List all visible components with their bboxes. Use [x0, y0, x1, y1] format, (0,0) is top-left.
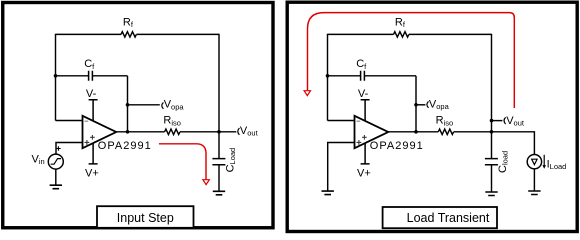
- capacitor C2 (CLoad): [212, 159, 225, 165]
- node junction dot Vout probe tap: [490, 119, 494, 123]
- panel frame (Input Step): [3, 3, 273, 228]
- ground (Vin): [50, 185, 62, 189]
- node junction dot Cf tap: [54, 74, 58, 78]
- node junction dot Vout: [217, 130, 221, 134]
- wire: Cf branch right: [364, 75, 416, 77]
- svg-text:Load Transient: Load Transient: [407, 211, 490, 225]
- op-amp U2 OPA2991: [355, 116, 389, 148]
- svg-text:V-: V-: [86, 88, 97, 100]
- capacitor C4 (CLoad): [485, 159, 498, 165]
- wire: op-amp output: [116, 131, 164, 133]
- wire: non-inverting input: [56, 143, 83, 155]
- svg-text:V+: V+: [357, 168, 371, 180]
- wire: CLoad to ground: [218, 165, 220, 192]
- wire: top feedback right segment: [409, 33, 492, 35]
- ground (ILoad): [528, 191, 540, 195]
- node junction dot output wire: [414, 130, 418, 134]
- op-amp minus input marker: [85, 120, 89, 122]
- ground (CLoad): [213, 191, 225, 195]
- wire: Riso to Vout node: [180, 131, 236, 133]
- wire: Vout node down to CLoad: [491, 132, 493, 159]
- wire: CLoad to ground: [491, 165, 493, 192]
- red annotation arrow (output to CLoad): [159, 144, 206, 180]
- wire: right feedback vertical: [218, 34, 220, 132]
- wire: right feedback vertical: [491, 34, 493, 132]
- source V1 (Vin step source): [48, 154, 63, 169]
- current direction triangle: [532, 159, 537, 164]
- node junction dot Vopa tap: [414, 103, 418, 107]
- node Vout probe paren: [504, 117, 506, 124]
- red arrowhead: [304, 91, 310, 96]
- resistor R1 (Rf): [121, 32, 136, 37]
- source I1 (ILoad current source): [527, 155, 541, 169]
- node Vout probe paren: [238, 128, 240, 135]
- wire: middle vertical Cf-to-output: [415, 76, 417, 132]
- svg-text:OPA2991: OPA2991: [98, 140, 152, 152]
- panel frame (Load Transient): [287, 2, 577, 231]
- wire: Vin to ground: [55, 169, 57, 185]
- node Vopa probe paren: [427, 101, 429, 107]
- resistor R2 (Riso): [165, 129, 180, 134]
- wire: Vout probe stub: [492, 120, 503, 122]
- node junction dot Vopa tap: [126, 103, 130, 107]
- wire: Cf branch left: [328, 75, 361, 77]
- supply pin V+ (stub and bar): [361, 143, 370, 164]
- ground (non-inverting input): [322, 191, 334, 195]
- wire: top feedback left segment: [328, 33, 394, 35]
- op-amp plus marker upper: [362, 135, 367, 140]
- node Vopa probe paren: [162, 102, 164, 108]
- wire: Vopa probe stub: [128, 104, 160, 106]
- supply pin V+ (stub and bar): [89, 143, 98, 164]
- step waveform symbol: [51, 159, 61, 165]
- plus polarity mark: [56, 146, 61, 151]
- wire: inverting input: [328, 120, 355, 122]
- node junction dot Cf tap: [326, 74, 330, 78]
- svg-text:OPA2991: OPA2991: [370, 140, 424, 152]
- wire: top feedback right segment: [136, 33, 219, 35]
- op-amp plus marker lower: [85, 140, 90, 145]
- svg-text:V-: V-: [358, 88, 369, 100]
- red annotation arrow (Vout around top to input): [308, 13, 515, 108]
- wire: left feedback vertical: [327, 34, 329, 121]
- resistor R4 (Riso): [438, 129, 453, 134]
- wire: Vout node to ILoad branch: [492, 132, 535, 155]
- wire: Riso to Vout node: [454, 131, 492, 133]
- wire: op-amp output: [388, 131, 438, 133]
- op-amp minus input marker: [357, 120, 361, 122]
- capacitor C1 (Cf): [89, 71, 93, 81]
- op-amp plus marker lower: [357, 140, 362, 145]
- caption box Load Transient: [383, 207, 497, 228]
- wire: inverting input: [56, 120, 83, 122]
- wire: Cf branch right: [92, 75, 127, 77]
- op-amp U1 OPA2991: [83, 116, 117, 148]
- resistor R3 (Rf): [394, 32, 409, 37]
- op-amp plus marker upper: [90, 135, 95, 140]
- svg-text:Input Step: Input Step: [117, 211, 174, 225]
- ground (CLoad): [485, 192, 497, 196]
- node junction dot output/CLoad/ILoad: [490, 130, 494, 134]
- wire: Cf branch left: [56, 75, 89, 77]
- caption box Input Step: [97, 206, 194, 228]
- capacitor C3 (Cf): [361, 71, 365, 81]
- current arrow down: [543, 155, 545, 166]
- wire: left feedback vertical: [55, 34, 57, 121]
- node junction dot output wire: [126, 130, 130, 134]
- wire: middle vertical Cf-to-output: [127, 76, 129, 132]
- wire: top feedback left segment: [56, 33, 122, 35]
- supply pin V- (bar and stub): [361, 100, 370, 121]
- wire: Vout node down to CLoad: [218, 132, 220, 159]
- red arrowhead: [203, 180, 209, 185]
- supply pin V- (bar and stub): [89, 100, 98, 121]
- wire: non-inverting input to ground: [328, 143, 355, 192]
- wire: ILoad to ground: [533, 169, 535, 191]
- svg-text:V+: V+: [85, 168, 99, 180]
- wire: Vopa probe stub: [416, 104, 425, 106]
- current arrowhead: [542, 165, 546, 169]
